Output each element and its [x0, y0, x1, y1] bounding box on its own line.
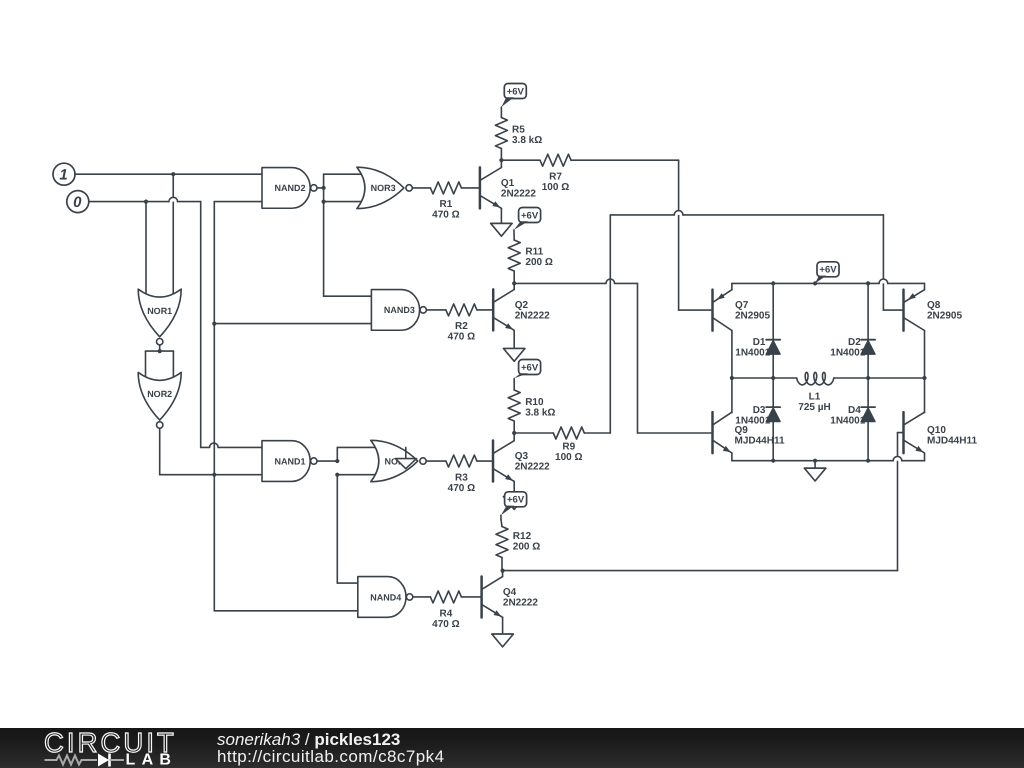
NAND gate NAND1 [262, 441, 317, 482]
wire NAND4out to R4 [414, 596, 431, 598]
transistor Q2 [493, 289, 550, 330]
wire NAND2out to NOR3 input A [324, 174, 369, 188]
node NAND2 output junction [322, 186, 326, 190]
wire Q10 emitter lead [924, 453, 926, 461]
svg-text:1N4001: 1N4001 [735, 416, 770, 427]
svg-text:R2: R2 [455, 321, 468, 332]
resistor R2 [446, 304, 477, 343]
wire R10 bottom lead [513, 421, 515, 433]
resistor R11 [508, 240, 553, 271]
wire Q3 collector lead [513, 433, 515, 441]
diode D4 [830, 405, 875, 427]
node junction on wire 1 [171, 172, 175, 176]
inverter overlapping NOR4 [395, 447, 416, 468]
wire clock net vertical [213, 202, 215, 611]
svg-text:Q3: Q3 [515, 451, 529, 462]
wire R11 bottom lead [513, 271, 515, 283]
wire Q2 collector lead [513, 283, 515, 289]
wire D3 branch [772, 378, 774, 461]
svg-text:NOR1: NOR1 [147, 306, 172, 316]
resistor R3 [446, 455, 477, 494]
ground H-bridge [804, 468, 825, 481]
wire R7 left lead [501, 159, 540, 161]
+6V flag R12 [501, 492, 527, 516]
svg-text:725 µH: 725 µH [798, 402, 830, 413]
svg-text:R7: R7 [549, 171, 562, 182]
+6V flag R10 [514, 360, 540, 379]
svg-text:2N2905: 2N2905 [735, 311, 770, 322]
wire Q7 collector lead [731, 331, 733, 379]
wire R5 bottom lead [500, 149, 502, 161]
svg-text:3.8 kΩ: 3.8 kΩ [525, 407, 555, 418]
node NAND2out lower junction [322, 200, 326, 204]
+6V flag R11 [514, 208, 541, 230]
wire NOR1 output stub [159, 345, 161, 351]
NAND gate NAND3 [371, 290, 426, 331]
wire D2 branch [867, 283, 869, 378]
wire Q1 emitter to ground [500, 208, 502, 223]
wire Q9 emitter lead [731, 453, 733, 461]
wire R10 top lead [513, 378, 515, 390]
svg-text:Q4: Q4 [503, 587, 517, 598]
diode D3 [735, 405, 780, 427]
svg-text:Q2: Q2 [515, 300, 529, 311]
node mid bus D1/D3 [771, 376, 775, 380]
wire D1 branch [772, 283, 774, 378]
wire NAND1out descent to NAND4 input A [337, 475, 358, 583]
svg-text:Q10: Q10 [927, 425, 946, 436]
svg-text:+6V: +6V [521, 210, 539, 221]
svg-text:NAND3: NAND3 [384, 305, 415, 315]
transistor Q1 [480, 167, 536, 208]
ground Q1 [491, 223, 512, 236]
node mid bus left [730, 376, 734, 380]
svg-text:D4: D4 [848, 405, 861, 416]
wire Q9 collector lead [731, 378, 733, 413]
node top bus D2 [866, 281, 870, 285]
svg-text:R4: R4 [440, 608, 453, 619]
wire Q8 collector lead [924, 331, 926, 379]
wire node0 descent to NAND1 input A [200, 202, 202, 448]
wire R9 to Q8 base [584, 211, 903, 433]
svg-text:Q7: Q7 [735, 300, 749, 311]
wire NAND1out to NOR4 input A [337, 447, 383, 461]
node clock-NOR2out junction [212, 473, 216, 477]
resistor R12 [496, 527, 540, 558]
wire NAND1 output [317, 460, 338, 462]
NOR gate NOR3 [357, 167, 412, 208]
node bottom bus D4 [866, 459, 870, 463]
svg-text:NAND2: NAND2 [274, 183, 305, 193]
node NAND1out lower junction [335, 473, 339, 477]
CircuitLab logo [44, 727, 177, 768]
wire NAND3out to R2 [427, 309, 446, 311]
svg-text:Q9: Q9 [735, 425, 749, 436]
wire D4 branch [867, 378, 869, 461]
wire NAND1 input A horizontal [201, 443, 262, 447]
transistor Q7 [713, 290, 771, 331]
NAND gate NAND2 [262, 168, 317, 209]
transistor Q4 [482, 576, 539, 617]
wire node0 drop to NOR1 input A [145, 202, 147, 296]
wire NAND1out to NOR4 input B [337, 474, 383, 476]
node mid bus D2/D4 [866, 376, 870, 380]
svg-text:2N2222: 2N2222 [515, 462, 550, 473]
wire Q4 collector lead [502, 571, 504, 577]
wire R12 top lead [501, 515, 502, 526]
svg-text:NOR2: NOR2 [147, 389, 172, 399]
wire Q10 collector lead [924, 378, 926, 413]
wire NOR4out to R3 [425, 460, 446, 462]
svg-text:NAND1: NAND1 [274, 456, 305, 466]
wire R1 to Q1 base [461, 187, 480, 189]
svg-text:0: 0 [73, 194, 82, 211]
svg-text:NAND4: NAND4 [370, 592, 401, 602]
node 1 flag [53, 163, 75, 185]
svg-text:1N4001: 1N4001 [830, 416, 865, 427]
node top bus +6V [813, 281, 817, 285]
svg-text:LAB: LAB [126, 752, 178, 768]
wire Q8 emitter lead [924, 283, 926, 289]
+6V flag H-bridge [815, 262, 839, 283]
svg-text:200 Ω: 200 Ω [513, 542, 540, 553]
diode D2 [830, 337, 875, 359]
wire top bus [732, 279, 925, 283]
node Q3 collector junction [512, 431, 516, 435]
svg-text:R5: R5 [512, 124, 525, 135]
wire R7 to Q7 base [571, 160, 713, 310]
wire Q1 collector lead [500, 160, 502, 167]
wire mid bus left [732, 377, 797, 379]
svg-text:100 Ω: 100 Ω [555, 452, 582, 463]
svg-text:3.8 kΩ: 3.8 kΩ [512, 135, 542, 146]
svg-text:D2: D2 [848, 337, 861, 348]
+6V flag R5 [501, 84, 526, 108]
node bottom bus D3 [771, 459, 775, 463]
wire R9 left lead [514, 432, 553, 434]
node junction on wire 0 [144, 200, 148, 204]
wire Q3 emitter to ground [513, 482, 515, 497]
svg-text:2N2222: 2N2222 [503, 598, 538, 609]
svg-text:D3: D3 [753, 405, 766, 416]
wire clock net to NAND3 input B [214, 323, 371, 325]
diode D1 [735, 337, 780, 359]
transistor Q10 [904, 412, 978, 453]
node Q1 collector junction [499, 158, 503, 162]
wire R3 to Q3 base [477, 460, 493, 462]
svg-text:MJD44H11: MJD44H11 [735, 436, 785, 447]
svg-text:1N4001: 1N4001 [735, 347, 770, 358]
wire R11 top lead [513, 230, 515, 240]
transistor Q3 [493, 441, 550, 482]
wire node0 to corner [89, 197, 201, 201]
resistor R5 [495, 118, 542, 149]
svg-text:+6V: +6V [507, 495, 525, 506]
wire Q7 emitter lead [731, 283, 733, 289]
svg-text:R12: R12 [513, 531, 532, 542]
svg-text:1N4001: 1N4001 [830, 347, 865, 358]
ground Q3 (hidden behind +6V flag) [504, 497, 525, 510]
svg-text:Q8: Q8 [927, 300, 941, 311]
wire NOR1-NOR2 split [146, 351, 174, 379]
wire Q2 emitter to ground [513, 331, 515, 349]
svg-text:+6V: +6V [507, 86, 525, 97]
transistor Q9 [713, 412, 785, 453]
svg-text:Q1: Q1 [501, 178, 515, 189]
node NAND1 output junction [335, 459, 339, 463]
wire R12 bottom lead [501, 558, 503, 571]
svg-text:R1: R1 [440, 199, 453, 210]
resistor R1 [430, 182, 461, 221]
NOR gate NOR2 [138, 372, 181, 428]
svg-text:470 Ω: 470 Ω [448, 483, 475, 494]
svg-text:+6V: +6V [521, 362, 539, 373]
node mid bus right [922, 376, 926, 380]
wire mid bus right [834, 377, 925, 379]
wire NOR3out to R1 [413, 187, 431, 189]
wire node1 drop to NOR1 input B [172, 174, 174, 296]
node NOR1 output junction [158, 349, 162, 353]
svg-text:2N2222: 2N2222 [515, 311, 550, 322]
svg-text:1: 1 [59, 167, 67, 184]
node clock-NAND3 junction [212, 322, 216, 326]
resistor R9 [553, 427, 584, 463]
wire NAND2out to NOR3 input B [324, 201, 369, 203]
svg-text:470 Ω: 470 Ω [432, 210, 459, 221]
resistor R7 [540, 154, 571, 193]
wire clock net to NAND2 input B [214, 201, 262, 203]
wire NAND2out descent to NAND3 input A [324, 188, 372, 296]
wire R2 to Q2 base [477, 309, 493, 311]
wire Q2 collector to Q9 base [514, 279, 712, 433]
node Q4 collector junction [501, 569, 505, 573]
wire Q4 emitter to ground [502, 617, 504, 634]
svg-text:NOR3: NOR3 [371, 183, 396, 193]
wire R4 to Q4 base [461, 596, 481, 598]
wire bridge ground stem [814, 461, 816, 469]
svg-text:L1: L1 [809, 392, 821, 403]
svg-text:R10: R10 [525, 397, 544, 408]
svg-text:470 Ω: 470 Ω [432, 619, 459, 630]
wire bottom bus [732, 456, 925, 460]
wire clock net to NAND4 input B [214, 610, 357, 612]
svg-text:R3: R3 [455, 472, 468, 483]
node bottom bus ground [813, 459, 817, 463]
svg-text:470 Ω: 470 Ω [448, 332, 475, 343]
node Q2 collector junction [512, 281, 516, 285]
NOR gate NOR4 [371, 440, 426, 481]
ground Q2 [504, 349, 525, 362]
svg-text:100 Ω: 100 Ω [542, 182, 569, 193]
wire Q4 collector to Q10 base [503, 433, 904, 571]
NAND gate NAND4 [358, 577, 413, 618]
inductor L1 [797, 372, 834, 413]
svg-text:+6V: +6V [819, 265, 837, 276]
transistor Q8 [904, 290, 963, 331]
node top bus D1 [771, 281, 775, 285]
svg-text:R9: R9 [562, 441, 575, 452]
svg-text:2N2905: 2N2905 [927, 311, 962, 322]
resistor R4 [430, 591, 461, 630]
svg-text:R11: R11 [525, 247, 543, 258]
NOR gate NOR1 [138, 289, 181, 345]
ground Q4 [492, 634, 513, 647]
wire R5 top lead [500, 107, 502, 118]
svg-text:200 Ω: 200 Ω [525, 257, 552, 268]
wire NOR2 output to NAND1 input B [160, 428, 262, 475]
svg-text:2N2222: 2N2222 [501, 189, 536, 200]
wire NAND2 output [317, 187, 324, 189]
resistor R10 [508, 390, 555, 421]
svg-text:D1: D1 [753, 337, 766, 348]
wire node1 to NAND2 input A [75, 173, 262, 175]
node 0 flag [67, 191, 89, 213]
svg-text:MJD44H11: MJD44H11 [927, 436, 977, 447]
